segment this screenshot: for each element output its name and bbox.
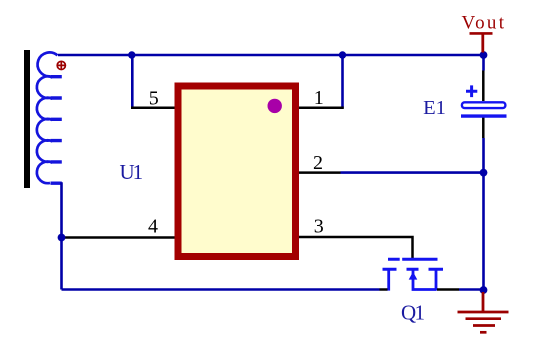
pin 5 lead — [131, 107, 181, 110]
junction node top right Vout — [480, 51, 488, 59]
MOSFET source stub — [380, 288, 388, 291]
IC U1 body — [178, 86, 296, 257]
wire right rail lower segment — [482, 138, 485, 290]
pin 4 lead — [63, 236, 181, 239]
capacitor plus sign — [466, 85, 477, 97]
wire bottom rail to MOSFET source — [62, 288, 380, 291]
MOSFET Q1 gate bar — [388, 258, 438, 261]
svg-text:E1: E1 — [423, 97, 446, 119]
pin 3 lead and gate drop — [298, 237, 413, 258]
inductor winding L (transformer primary) — [37, 52, 62, 183]
svg-text:Q1: Q1 — [401, 300, 425, 324]
wire right rail upper segment — [482, 55, 485, 71]
capacitor E1 negative plate — [461, 114, 507, 117]
MOSFET drain stub — [437, 288, 459, 291]
junction node ground — [480, 286, 488, 294]
MOSFET Q1 bulk leg with arrow — [413, 269, 436, 289]
wire left rail down from winding — [60, 182, 63, 289]
svg-text:2: 2 — [313, 152, 323, 174]
svg-text:3: 3 — [314, 216, 324, 238]
pin 1 lead — [298, 107, 344, 110]
wire drain to right rail — [459, 288, 484, 291]
Vout power bar symbol — [470, 33, 493, 52]
pin 2 lead — [298, 171, 341, 174]
transformer core bar — [24, 50, 30, 188]
svg-text:Vout: Vout — [462, 13, 505, 34]
junction node pin4/left rail — [58, 234, 66, 242]
svg-text:5: 5 — [149, 88, 159, 110]
MOSFET Q1 channel segments — [383, 268, 444, 271]
svg-text:U1: U1 — [120, 160, 144, 184]
wire top rail — [58, 54, 484, 57]
wire vertical drop to pin 5 — [131, 55, 134, 108]
svg-text:4: 4 — [148, 216, 158, 238]
svg-text:1: 1 — [314, 87, 324, 109]
wire vertical drop to pin 1 — [341, 55, 344, 108]
capacitor E1 top pin — [482, 71, 485, 102]
junction node at pin5 drop — [128, 51, 135, 58]
IC pin-1 marker dot — [268, 99, 282, 113]
ground symbol — [458, 292, 509, 332]
junction node at pin1 drop — [339, 51, 346, 58]
MOSFET Q1 source leg — [387, 269, 390, 290]
wire pin2 to right rail — [341, 171, 484, 174]
MOSFET Q1 drain leg — [435, 269, 438, 290]
capacitor E1 positive plate — [462, 102, 506, 108]
junction node pin2/right rail — [480, 169, 488, 177]
polarity dot symbol on winding — [57, 61, 65, 69]
capacitor E1 bottom pin — [482, 117, 485, 139]
